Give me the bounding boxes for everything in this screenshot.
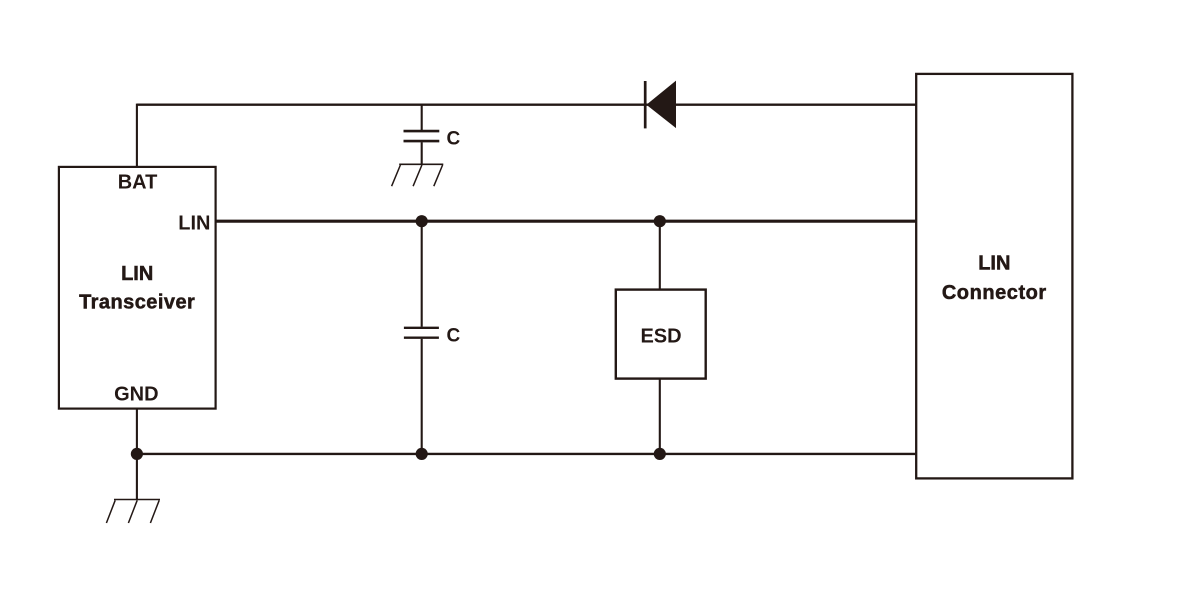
capacitor C1 lower lead bbox=[421, 142, 423, 164]
ground symbol (below GND pin) bbox=[106, 500, 160, 524]
svg-text:ESD: ESD bbox=[640, 325, 681, 347]
diode D1 (reverse-battery protection, cathode bar + filled triangle) bbox=[645, 81, 676, 129]
svg-text:LIN: LIN bbox=[178, 213, 210, 235]
wire: LIN net from U1 to LIN connector bbox=[216, 220, 917, 223]
svg-text:Transceiver: Transceiver bbox=[79, 291, 195, 313]
svg-text:BAT: BAT bbox=[118, 172, 158, 194]
capacitor C2 lower lead bbox=[421, 339, 423, 454]
connector J1: LIN Connector box bbox=[916, 74, 1072, 479]
wire: ESD lower lead bbox=[659, 379, 661, 454]
svg-text:C: C bbox=[447, 128, 461, 149]
ESD suppressor box bbox=[616, 290, 706, 379]
IC U1: LIN Transceiver box bbox=[59, 167, 216, 409]
J1 title: LIN Connector bbox=[942, 252, 1047, 304]
wire: BAT pin vertical lead bbox=[136, 104, 138, 167]
node: ESD / ground bus junction bbox=[654, 448, 666, 460]
svg-text:C: C bbox=[447, 325, 461, 346]
wire: GND pin lead bbox=[136, 409, 138, 500]
wire: ground bus to LIN connector bbox=[137, 453, 916, 455]
svg-text:GND: GND bbox=[114, 383, 158, 405]
svg-text:Connector: Connector bbox=[942, 282, 1047, 304]
node: C2 / ground bus junction bbox=[416, 448, 428, 460]
node: GND / ground bus junction bbox=[131, 448, 143, 460]
svg-text:LIN: LIN bbox=[121, 263, 153, 285]
ground symbol (below C1) bbox=[392, 164, 444, 186]
capacitor C1 plates bbox=[404, 131, 440, 141]
node: LIN / C2 junction bbox=[416, 215, 428, 227]
node: LIN / ESD junction bbox=[654, 215, 666, 227]
wire: top rail (BAT net) from BAT corner to LIN connector bbox=[137, 104, 916, 106]
capacitor C1 upper lead (from top rail) bbox=[421, 105, 423, 131]
capacitor C2 upper lead bbox=[421, 221, 423, 327]
wire: ESD upper lead bbox=[659, 221, 661, 289]
U1 title: LIN Transceiver bbox=[79, 263, 195, 313]
svg-text:LIN: LIN bbox=[978, 252, 1010, 274]
capacitor C2 plates bbox=[404, 328, 439, 338]
